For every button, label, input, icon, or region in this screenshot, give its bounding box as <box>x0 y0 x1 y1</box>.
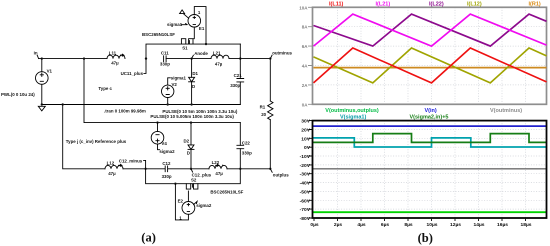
svg-text:0V: 0V <box>304 145 311 151</box>
transistor S1 <box>181 39 194 51</box>
node C12_plus <box>191 169 212 178</box>
svg-text:PULSE(0 10 5.005m 100n 100n 3.: PULSE(0 10 5.005m 100n 100n 3.3u 10u) <box>150 114 234 119</box>
svg-text:-40V: -40V <box>300 181 311 187</box>
svg-text:S2: S2 <box>191 177 197 182</box>
trace I(L12) olive <box>314 48 547 83</box>
svg-text:L22: L22 <box>212 160 220 165</box>
junction E1 loop on S1 row <box>205 43 207 45</box>
junction x62.7 on ground rail <box>62 103 64 105</box>
junction D1 bottom <box>190 103 192 105</box>
svg-text:330p: 330p <box>242 150 252 155</box>
junction C12 plus node <box>190 168 192 170</box>
trace V(in) blue <box>313 125 547 127</box>
junction ground node <box>41 103 43 105</box>
op-amp-style source E2 <box>178 191 195 221</box>
svg-text:Type j (c_inv) Reference plus: Type j (c_inv) Reference plus <box>66 139 127 144</box>
junction V4 top <box>156 121 158 123</box>
svg-text:30V: 30V <box>301 119 310 125</box>
svg-text:20: 20 <box>261 112 266 117</box>
svg-text:10A: 10A <box>299 5 308 10</box>
trace I(L22) purple <box>314 14 547 46</box>
svg-text:E1: E1 <box>199 26 205 31</box>
junction outminus <box>269 57 271 59</box>
svg-text:47µ: 47µ <box>108 171 116 176</box>
node C12_minus <box>119 158 147 170</box>
wire x84 drop to mid rail <box>84 59 240 123</box>
svg-text:4A: 4A <box>302 64 309 69</box>
resistor R1 <box>260 59 273 169</box>
grid plot1 <box>313 7 547 104</box>
svg-text:BSC265N10LSF: BSC265N10LSF <box>210 189 243 194</box>
wire in to L11 <box>39 58 107 60</box>
svg-text:16µs: 16µs <box>497 222 508 228</box>
inductor L12 <box>105 161 123 176</box>
svg-text:PWL(0 0 10u 24): PWL(0 0 10u 24) <box>1 92 35 97</box>
diode D2 <box>184 123 195 169</box>
grid plot2 <box>313 121 547 218</box>
junction outplus <box>269 168 271 170</box>
svg-text:2A: 2A <box>302 83 309 88</box>
junction V2 bottom <box>167 103 169 105</box>
svg-text:14µs: 14µs <box>474 222 485 228</box>
junction gate riser node <box>145 57 147 59</box>
inductor L11 <box>107 50 125 65</box>
junction L22 right <box>239 168 241 170</box>
svg-text:6A: 6A <box>302 44 309 49</box>
svg-text:330p: 330p <box>160 61 170 66</box>
plot2 border <box>313 121 547 218</box>
svg-text:20V: 20V <box>301 128 310 134</box>
capacitor C21 <box>230 44 244 104</box>
wire L21 to outminus column <box>229 58 270 60</box>
junction D2 top <box>190 121 192 123</box>
wire riser to S1 row <box>146 44 240 59</box>
svg-text:D1: D1 <box>192 71 198 76</box>
wire E2 loop <box>175 184 188 220</box>
junction C21 column top rail <box>239 57 241 59</box>
svg-text:0µs: 0µs <box>310 222 319 228</box>
svg-text:8µs: 8µs <box>404 222 413 228</box>
svg-text:C12: C12 <box>162 161 171 166</box>
node Anode <box>190 51 208 60</box>
wire E1 loop <box>194 7 206 45</box>
svg-text:-60V: -60V <box>300 198 311 204</box>
svg-text:10V: 10V <box>301 136 310 142</box>
diode D1 <box>189 59 199 105</box>
node sigma1 control of E1 <box>167 10 189 27</box>
svg-text:47µ: 47µ <box>215 62 223 67</box>
svg-text:L21: L21 <box>213 51 221 56</box>
svg-text:V(sigma2,in)+5: V(sigma2,in)+5 <box>410 115 449 121</box>
svg-text:4µs: 4µs <box>357 222 366 228</box>
svg-text:I(L22): I(L22) <box>429 1 444 7</box>
svg-text:2µs: 2µs <box>334 222 343 228</box>
svg-text:C12_minus: C12_minus <box>119 158 143 163</box>
svg-text:(a): (a) <box>141 231 156 245</box>
svg-text:-50V: -50V <box>300 189 311 195</box>
svg-text:18µs: 18µs <box>521 222 532 228</box>
svg-text:I(L12): I(L12) <box>467 1 482 7</box>
svg-text:-80V: -80V <box>300 216 311 222</box>
svg-text:-20V: -20V <box>300 163 311 169</box>
svg-text:L11: L11 <box>109 50 117 55</box>
trace V(sigma1) teal <box>313 138 547 147</box>
plot1 legend <box>329 1 541 7</box>
svg-text:V(outminus): V(outminus) <box>490 108 522 114</box>
svg-text:Type c: Type c <box>98 86 112 91</box>
wire ground rail <box>42 104 241 106</box>
svg-text:I(R1): I(R1) <box>529 1 541 7</box>
svg-text:R1: R1 <box>260 105 266 110</box>
wire mid rail corner to C22 <box>239 123 241 146</box>
svg-text:330p: 330p <box>230 83 240 88</box>
node outplus <box>270 169 289 178</box>
svg-text:outminus: outminus <box>272 51 292 56</box>
trace V(outminus,outplus) green bright <box>313 211 547 213</box>
wire left drop to bottom rail <box>63 105 105 169</box>
svg-text:C22: C22 <box>242 140 251 145</box>
plot2 ticks <box>308 121 525 221</box>
svg-text:-10V: -10V <box>300 154 311 160</box>
node outminus <box>270 51 292 59</box>
svg-text:sigma2: sigma2 <box>159 149 175 154</box>
voltage source V2 <box>162 75 187 104</box>
trace V(outminus) gray <box>313 168 547 170</box>
svg-text:V4: V4 <box>161 141 167 146</box>
svg-text:outplus: outplus <box>273 172 289 177</box>
op-amp-style source E1 <box>188 10 205 38</box>
svg-text:I(L21): I(L21) <box>376 1 391 7</box>
svg-text:UC11_plus: UC11_plus <box>121 71 144 76</box>
svg-text:C11: C11 <box>161 51 169 56</box>
svg-text:V(sigma1): V(sigma1) <box>340 115 366 121</box>
svg-text:-30V: -30V <box>300 172 311 178</box>
svg-text:(b): (b) <box>418 231 433 245</box>
plot1 y ticks <box>308 7 312 104</box>
node UC11_plus <box>121 59 146 77</box>
svg-text:-70V: -70V <box>300 207 311 213</box>
plot2 y labels <box>300 119 311 222</box>
trace I(L11) red <box>314 48 547 83</box>
svg-text:Anode: Anode <box>194 51 208 56</box>
svg-text:47µ: 47µ <box>111 61 119 66</box>
junction x84 on top rail <box>83 57 85 59</box>
svg-text:V1: V1 <box>47 68 53 73</box>
svg-text:I(L11): I(L11) <box>329 1 344 7</box>
trace V(sigma2,in)+5 dark green <box>313 134 547 143</box>
wire bottom rail segments <box>123 168 270 170</box>
plot2 x labels <box>310 222 531 228</box>
node in <box>34 51 39 59</box>
svg-text:.tran 0 100m 99.98m: .tran 0 100m 99.98m <box>104 108 146 113</box>
capacitor C12 <box>162 161 172 179</box>
voltage source V4 <box>151 123 167 150</box>
svg-text:L12: L12 <box>107 161 115 166</box>
junction V1 top <box>41 57 43 59</box>
svg-text:E2: E2 <box>178 198 184 203</box>
trace I(R1) orange <box>314 67 547 69</box>
voltage source V1 <box>36 59 53 105</box>
svg-text:D: D <box>187 150 190 155</box>
svg-text:D2: D2 <box>184 139 190 144</box>
node sigma2 control of E2 <box>194 201 212 208</box>
junction E2 loop on S2 row <box>174 183 176 185</box>
svg-text:330p: 330p <box>162 174 172 179</box>
svg-text:sigma1: sigma1 <box>167 22 183 27</box>
svg-text:V(outminus,outplus): V(outminus,outplus) <box>325 108 379 114</box>
capacitor C22 <box>237 140 252 168</box>
svg-text:6µs: 6µs <box>381 222 390 228</box>
wire S2 bottom rail <box>146 169 241 184</box>
svg-text:sigma1: sigma1 <box>171 75 187 80</box>
svg-text:V2: V2 <box>172 82 178 87</box>
svg-text:10µs: 10µs <box>427 222 438 228</box>
svg-text:C21: C21 <box>234 73 243 78</box>
ground <box>38 106 45 111</box>
capacitor C11 <box>160 51 170 67</box>
svg-text:V(in): V(in) <box>425 108 437 114</box>
plot1 border <box>313 7 547 104</box>
svg-text:in: in <box>34 51 38 56</box>
svg-text:8A: 8A <box>302 25 309 30</box>
plot1 y labels <box>299 5 308 107</box>
inductor L21 <box>211 51 229 67</box>
svg-text:sigma2: sigma2 <box>196 203 212 208</box>
svg-text:D: D <box>192 84 195 89</box>
inductor L22 <box>209 160 227 176</box>
svg-text:0A: 0A <box>302 102 309 107</box>
svg-text:47µ: 47µ <box>215 171 223 176</box>
trace I(L21) magenta <box>314 14 547 46</box>
svg-text:S1: S1 <box>182 45 188 50</box>
wire C11 to L21 <box>166 58 211 60</box>
svg-text:BSC265N10LSF: BSC265N10LSF <box>142 32 175 37</box>
svg-text:12µs: 12µs <box>450 222 461 228</box>
transistor S2 <box>186 177 198 189</box>
